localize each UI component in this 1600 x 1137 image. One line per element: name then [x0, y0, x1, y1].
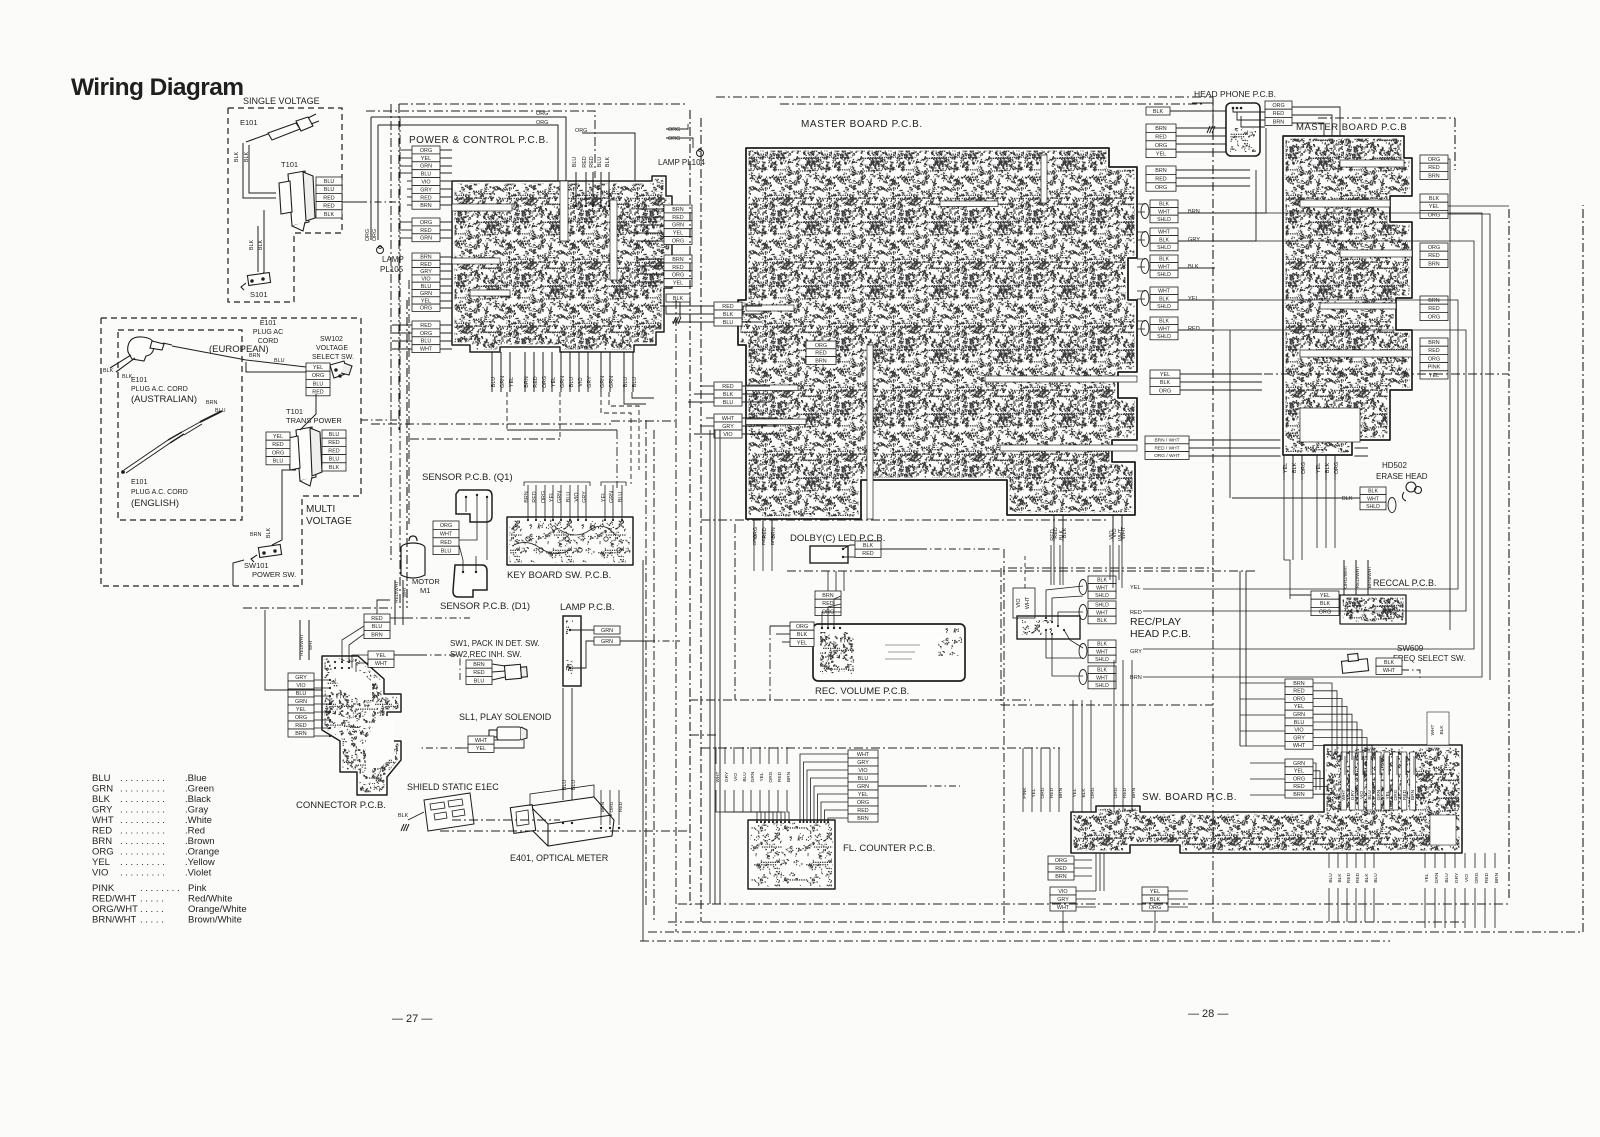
shield stack4 shield ellipse [1141, 291, 1149, 306]
wire org top c [582, 133, 635, 181]
recvol enclosure vert [734, 524, 736, 700]
recplay shield3 shield ellipse [1079, 644, 1087, 659]
multi voltage dashed enclosure [101, 318, 361, 586]
recplay enclosure top [1008, 567, 1213, 569]
sl1 stack WHT YEL [468, 736, 494, 752]
shield stack4 [1150, 287, 1178, 310]
svg-text:SW2,REC INH. SW.: SW2,REC INH. SW. [450, 650, 522, 659]
svg-text:VIO: VIO [574, 492, 580, 501]
svg-text:BLK: BLK [1059, 530, 1065, 541]
svg-text:BRN: BRN [672, 257, 683, 263]
wire conn yel [352, 655, 368, 668]
svg-text:KEY BOARD SW. P.C.B.: KEY BOARD SW. P.C.B. [507, 570, 611, 581]
wire lamp out [620, 640, 648, 642]
wire below power grn2b [609, 392, 639, 470]
wire T101 down to SW101 [272, 470, 296, 545]
svg-text:RED: RED [672, 265, 683, 271]
right master reccal jog [1284, 560, 1290, 599]
sw below stack ORG RED BRN [1048, 856, 1074, 880]
svg-text:RED: RED [420, 262, 431, 268]
wire recplay 3 [1058, 612, 1083, 626]
wire below power bus430 [507, 429, 617, 431]
bus vertical left of master [689, 110, 691, 905]
svg-text:PLUG A.C. CORD: PLUG A.C. CORD [131, 386, 188, 393]
svg-text:SL1, PLAY SOLENOID: SL1, PLAY SOLENOID [459, 712, 552, 722]
mid dashdot 421 [611, 420, 675, 422]
svg-text:BLK: BLK [258, 240, 264, 251]
wire plug to T101 b [249, 145, 276, 193]
svg-text:. . . . . . . . .: . . . . . . . . . [120, 868, 165, 879]
mid dashdot 608 [243, 607, 392, 609]
keyboard pin dots [527, 519, 623, 521]
wire conn red [377, 600, 390, 614]
svg-text:RED: RED [323, 204, 334, 210]
svg-text:M1: M1 [420, 586, 430, 595]
svg-text:BRN: BRN [770, 534, 776, 545]
svg-text:PLUG A.C. CORD: PLUG A.C. CORD [131, 489, 188, 496]
svg-text:WHT: WHT [420, 347, 433, 353]
svg-text:RED: RED [589, 156, 595, 167]
svg-text:BRN/WHT: BRN/WHT [92, 915, 137, 926]
svg-text:BLK: BLK [234, 152, 240, 163]
dolby led pcb [810, 546, 848, 563]
wire euro plug to sw102 [172, 346, 306, 367]
rec volume stack ORG BLK YEL [790, 622, 814, 647]
wire below power x560 [559, 392, 561, 439]
svg-text:RED: RED [722, 384, 733, 390]
svg-text:RED: RED [92, 826, 112, 837]
svg-text:SHLD: SHLD [1157, 245, 1171, 251]
svg-text:FL. COUNTER P.C.B.: FL. COUNTER P.C.B. [843, 843, 935, 854]
recplay top wires2 [1110, 545, 1119, 580]
svg-text:BRN: BRN [815, 358, 826, 364]
svg-text:ORG: ORG [1155, 143, 1167, 149]
svg-text:. . . . . . . . .: . . . . . . . . . [120, 784, 165, 795]
svg-text:GRN: GRN [672, 223, 684, 229]
svg-text:Wiring Diagram: Wiring Diagram [71, 74, 243, 101]
svg-text:.Red: .Red [185, 826, 205, 837]
keyboard top labels [524, 491, 588, 503]
svg-text:YEL: YEL [1429, 204, 1439, 210]
svg-text:BLK: BLK [605, 157, 611, 168]
svg-text:YEL: YEL [601, 492, 607, 502]
left bus 424 [371, 423, 611, 425]
svg-text:E401, OPTICAL METER: E401, OPTICAL METER [510, 853, 609, 863]
svg-text:BLK: BLK [1153, 109, 1164, 115]
SW102 stack YEL ORG BLU RED [306, 363, 330, 396]
svg-text:ORG: ORG [365, 229, 371, 241]
svg-text:LAMP: LAMP [382, 255, 404, 264]
headphone red run [1292, 115, 1332, 136]
connector left wires [314, 680, 330, 736]
svg-text:ORG: ORG [372, 229, 378, 241]
fl counter right wires [800, 754, 848, 822]
power left stack3 [412, 253, 440, 311]
plug E101 australian cord [122, 411, 222, 473]
wire left stack2 runs [700, 385, 714, 387]
svg-text:BLK: BLK [103, 368, 114, 374]
svg-text:VOLTAGE: VOLTAGE [306, 516, 352, 527]
svg-text:. . . . . . . . .: . . . . . . . . . [120, 836, 165, 847]
svg-text:PINK: PINK [1428, 365, 1441, 371]
wire below power x617 [616, 430, 618, 488]
power board white channels [452, 181, 617, 296]
wires board to shield stacks [1137, 204, 1145, 329]
wire left stack1 run3 [672, 321, 714, 323]
sw board inner labels [1341, 789, 1416, 800]
svg-text:BLK: BLK [1160, 380, 1171, 386]
recvol enclosure horiz [689, 699, 1030, 701]
svg-text:WHT: WHT [475, 738, 488, 744]
fl counter pin dots [756, 821, 829, 823]
svg-text:GRN: GRN [609, 491, 615, 503]
svg-text:BLK: BLK [1439, 725, 1445, 735]
wire headphone red [1237, 112, 1265, 120]
bus right vertical 1213 [1212, 97, 1214, 640]
svg-text:RED: RED [857, 808, 868, 814]
svg-text:BRN: BRN [857, 816, 868, 822]
swboard pink stub up [1023, 748, 1059, 770]
keyboard pads [512, 526, 621, 554]
wire conn top b [349, 634, 364, 662]
master right stack BRN RED ORG [1146, 166, 1176, 191]
single voltage dashed enclosure [228, 108, 342, 302]
svg-text:RED: RED [1428, 306, 1439, 312]
svg-text:BLU: BLU [92, 773, 111, 784]
sensor q1 pins [465, 494, 488, 498]
wire sw609 wht [1402, 670, 1420, 680]
shield stack3 [1150, 255, 1178, 278]
recplay shield2 shield ellipse [1079, 605, 1087, 620]
svg-text:.Green: .Green [185, 784, 214, 795]
wire conn top a [342, 626, 364, 662]
wire recplay 2 [1052, 596, 1083, 622]
svg-text:POWER & CONTROL P.C.B.: POWER & CONTROL P.C.B. [409, 135, 549, 146]
svg-text:GRY: GRY [1293, 735, 1305, 741]
bus mid horizontal 571 [787, 570, 1256, 572]
svg-text:BLK: BLK [863, 543, 874, 549]
recplay shield3 [1088, 640, 1116, 663]
e401 blu up [563, 688, 572, 700]
recplay shield4 shield ellipse [1079, 670, 1087, 685]
lamp pcb stack GRN [594, 626, 620, 634]
svg-text:WHT: WHT [1096, 610, 1109, 616]
svg-text:LAMP PL104: LAMP PL104 [658, 158, 706, 167]
australian english dashed box [118, 330, 242, 520]
master bottom labels org red brn [753, 527, 777, 539]
svg-text:YEL: YEL [1188, 296, 1199, 302]
wire recplay 4 [1064, 630, 1083, 648]
shield ground [401, 824, 409, 831]
svg-text:. . . . .: . . . . . [140, 915, 164, 926]
wires stack4 to board [440, 325, 452, 349]
flcounter stubs up [716, 747, 787, 764]
power right stack1 BRN RED GRN YEL ORG [664, 205, 692, 245]
svg-text:MULTI: MULTI [306, 504, 335, 515]
wire recplay 6 [1052, 634, 1083, 676]
swboard g1 left wires [1240, 683, 1285, 746]
wire recplay 1 [1046, 586, 1083, 618]
svg-text:BRN: BRN [672, 207, 683, 213]
dolby long vertical [1003, 549, 1005, 922]
svg-text:YEL: YEL [1150, 889, 1160, 895]
svg-text:RED: RED [420, 228, 431, 234]
right master stack out yel [1448, 205, 1509, 207]
svg-text:BLK: BLK [1429, 196, 1440, 202]
svg-text:ORG: ORG [1428, 356, 1440, 362]
wire sw102 to T101 [300, 394, 316, 430]
master board white channels [746, 155, 1137, 519]
T101 trans left stack YEL RED ORG BLU [266, 432, 290, 465]
recplay shield4 [1088, 666, 1116, 689]
svg-text:BLK: BLK [324, 212, 335, 218]
svg-text:BRN: BRN [1494, 872, 1500, 883]
svg-text:YEL: YEL [313, 365, 323, 371]
bus center verticals2 [653, 430, 655, 922]
right master stack BLK YEL ORG [1420, 194, 1448, 219]
svg-text:BLU: BLU [723, 400, 734, 406]
wires master right out2 [1176, 170, 1250, 186]
svg-text:.Blue: .Blue [185, 773, 207, 784]
bus vertical left of master2 [700, 118, 702, 922]
bottom bus 941 [640, 940, 1390, 942]
svg-text:SENSOR P.C.B. (D1): SENSOR P.C.B. (D1) [440, 601, 530, 612]
wire sw12 a [492, 664, 505, 666]
wire blk to ground [672, 302, 680, 317]
fl counter right stack [848, 750, 878, 822]
recplay top labels vio wht [1109, 528, 1124, 541]
wires master left in3 [742, 418, 778, 434]
switch SW609 [1341, 653, 1368, 673]
svg-text:FREQ SELECT SW.: FREQ SELECT SW. [1393, 654, 1465, 663]
svg-text:GRY: GRY [1188, 237, 1200, 243]
svg-text:ORG: ORG [1272, 103, 1284, 109]
wire hd502 blk [1232, 497, 1360, 499]
svg-text:CONNECTOR P.C.B.: CONNECTOR P.C.B. [296, 800, 386, 811]
svg-text:HEAD P.C.B.: HEAD P.C.B. [1130, 628, 1191, 640]
svg-text:BRN: BRN [92, 836, 112, 847]
svg-text:YEL: YEL [476, 746, 486, 752]
wire fl grn out [878, 785, 920, 787]
svg-text:GRN: GRN [857, 784, 869, 790]
rec volume stack BRN RED ORG [815, 591, 841, 616]
svg-text:REC/PLAY: REC/PLAY [1130, 616, 1181, 628]
right master bottom labels b [1316, 462, 1340, 474]
motor M1 [401, 536, 425, 578]
svg-text:GRN: GRN [1293, 712, 1305, 718]
wire left stack3 runs3 [694, 433, 714, 435]
svg-text:BRN: BRN [524, 491, 530, 502]
power left stack1 [412, 146, 440, 209]
svg-text:VIO: VIO [1464, 874, 1470, 883]
plug E101 european [110, 337, 172, 372]
svg-text:BLU: BLU [421, 172, 432, 178]
head phone stack ORG RED BRN [1265, 101, 1292, 126]
svg-text:GRN: GRN [1376, 789, 1382, 800]
power right stack2 BRN RED ORG YEL [664, 255, 692, 287]
wires brnwht out [1189, 440, 1368, 456]
right master stack BRN RED ORG PINK YEL [1420, 338, 1448, 379]
svg-text:WHT: WHT [1430, 724, 1436, 735]
e401 blu wires [563, 700, 572, 800]
svg-text:BLU: BLU [421, 339, 432, 345]
svg-text:. . . . . . . . .: . . . . . . . . . [120, 815, 165, 826]
wire multi box to right [361, 419, 400, 421]
svg-text:YEL: YEL [1130, 585, 1141, 591]
svg-text:WHT: WHT [1158, 230, 1171, 236]
wire dolby out dash [920, 548, 1000, 550]
svg-text:GRN: GRN [601, 628, 613, 634]
svg-text:VIO: VIO [858, 768, 867, 774]
svg-text:.Black: .Black [185, 794, 211, 805]
wire T101 RED out [342, 201, 360, 203]
svg-text:BRN: BRN [295, 731, 306, 737]
svg-text:BLK: BLK [1342, 496, 1353, 502]
svg-text:WHT: WHT [1293, 743, 1306, 749]
keyboard top wires2 [605, 485, 622, 520]
svg-text:GRN: GRN [420, 164, 432, 170]
svg-text:.Violet: .Violet [185, 868, 212, 879]
bus top right inner [780, 103, 1205, 105]
svg-text:BRN: BRN [1273, 119, 1284, 125]
svg-text:BRN: BRN [250, 532, 261, 538]
bus top right [716, 96, 1213, 98]
svg-text:ORG: ORG [1293, 696, 1305, 702]
svg-text:HEAD PHONE P.C.B.: HEAD PHONE P.C.B. [1194, 89, 1276, 99]
wires stack3 to board [440, 257, 452, 308]
svg-text:GRN: GRN [420, 236, 432, 242]
svg-text:ORG: ORG [1055, 858, 1067, 864]
svg-text:GRY: GRY [1454, 872, 1460, 883]
wire q1 c [486, 497, 488, 560]
wires stack1 to board [440, 150, 452, 205]
master BLK top right [1146, 107, 1170, 115]
svg-text:BRN: BRN [1155, 126, 1166, 132]
sw board top labels pink [1022, 787, 1064, 799]
svg-text:RED: RED [722, 304, 733, 310]
svg-text:RED: RED [1355, 872, 1361, 883]
svg-text:YEL: YEL [1156, 151, 1166, 157]
bus center verticals3 [675, 300, 677, 932]
svg-text:RED: RED [312, 390, 323, 396]
bus right vertical 1509 [1508, 209, 1510, 900]
svg-text:BLU: BLU [566, 492, 572, 503]
svg-text:BRN: BRN [473, 662, 484, 668]
wire dolby blk [843, 545, 855, 549]
shield run gry [1143, 241, 1474, 649]
svg-text:ORG: ORG [1428, 157, 1440, 163]
svg-text:BLK: BLK [797, 632, 808, 638]
svg-text:BLU: BLU [597, 157, 603, 168]
svg-text:PINK: PINK [92, 883, 115, 894]
svg-text:BLU: BLU [215, 408, 226, 414]
headphone org run [1292, 107, 1340, 136]
fl counter left wires [716, 790, 789, 822]
sw below wires a [1329, 853, 1374, 868]
svg-text:BLU: BLU [1367, 790, 1373, 800]
svg-text:SHLD: SHLD [1095, 683, 1109, 689]
sw below labels blu blk red [1328, 872, 1379, 883]
svg-text:.Gray: .Gray [185, 805, 208, 816]
power top entry labels BLU RED RED BLU BLK [572, 156, 611, 167]
svg-text:SHIELD STATIC E1EC: SHIELD STATIC E1EC [407, 782, 499, 792]
right master stack BRN RED ORG [1420, 296, 1448, 321]
rec volume center marks [885, 645, 920, 659]
svg-text:WHT: WHT [1096, 675, 1109, 681]
svg-text:BRN: BRN [1428, 340, 1439, 346]
svg-text:RED: RED [1428, 253, 1439, 259]
svg-text:ORG: ORG [815, 343, 827, 349]
svg-text:.Orange: .Orange [185, 847, 219, 858]
head phone ground [1207, 126, 1215, 133]
svg-text:YEL: YEL [1424, 873, 1430, 882]
svg-text:VIO: VIO [723, 432, 732, 438]
wire lamp grn [570, 629, 594, 631]
wires master right out1 [1176, 128, 1240, 152]
svg-text:SW101: SW101 [244, 561, 269, 570]
svg-text:BLK: BLK [329, 465, 340, 471]
bus mid horizontal 820 [452, 819, 560, 821]
solenoid SL1 [489, 727, 527, 740]
svg-text:BLU: BLU [273, 459, 284, 465]
sw12 stack BRN RED BLU [466, 660, 492, 685]
wire sw101 to box edge [233, 560, 244, 586]
switch sw1 sw2 [504, 664, 527, 679]
svg-text:BLU: BLU [329, 457, 340, 463]
transformer T101 multi [288, 427, 322, 486]
flcounter bus a [690, 734, 716, 736]
svg-text:ORG: ORG [1319, 609, 1331, 615]
svg-text:. . . . .: . . . . . [140, 904, 164, 915]
svg-text:BRN: BRN [822, 593, 833, 599]
svg-text:YEL: YEL [421, 156, 431, 162]
swboard org stub up [1114, 660, 1132, 770]
sensor pcb q1 [456, 490, 492, 522]
svg-text:BLK: BLK [1097, 618, 1107, 624]
svg-text:RED: RED [1346, 872, 1352, 883]
fl counter pcb [748, 820, 835, 889]
reccal stack YEL BLK ORG [1311, 591, 1339, 616]
HD502 shield stack [1360, 487, 1386, 510]
svg-text:BLK: BLK [1159, 202, 1169, 208]
svg-text:VIO: VIO [421, 277, 430, 283]
recplay shield2 [1088, 601, 1116, 624]
svg-text:WHT: WHT [1096, 649, 1109, 655]
svg-text:RED: RED [295, 723, 306, 729]
wire conn out yel [394, 654, 420, 656]
svg-text:(AUSTRALIAN): (AUSTRALIAN) [131, 394, 197, 405]
svg-text:S101: S101 [250, 290, 268, 299]
plug E101 [246, 114, 319, 142]
svg-text:BLK: BLK [266, 528, 272, 539]
bus right horizontal 118 [1318, 117, 1455, 119]
svg-text:SW1, PACK IN DET. SW.: SW1, PACK IN DET. SW. [450, 639, 540, 648]
power top entry dots [575, 205, 610, 207]
swboard yel stub up [1073, 700, 1091, 770]
wire hd502 long [1229, 330, 1231, 498]
lamp PL104 [697, 150, 704, 157]
svg-text:SINGLE VOLTAGE: SINGLE VOLTAGE [243, 96, 320, 106]
svg-text:WHT: WHT [1383, 668, 1396, 674]
wire T101 to S101 b [262, 210, 264, 276]
wire q1 a [465, 497, 467, 512]
wire sl1 out [462, 747, 468, 749]
svg-text:RED: RED [1428, 165, 1439, 171]
svg-text:ORG: ORG [857, 800, 869, 806]
sw board top labels yel [1072, 787, 1096, 798]
svg-text:ORG: ORG [1159, 388, 1171, 394]
sw board left stack wires [1313, 683, 1372, 794]
